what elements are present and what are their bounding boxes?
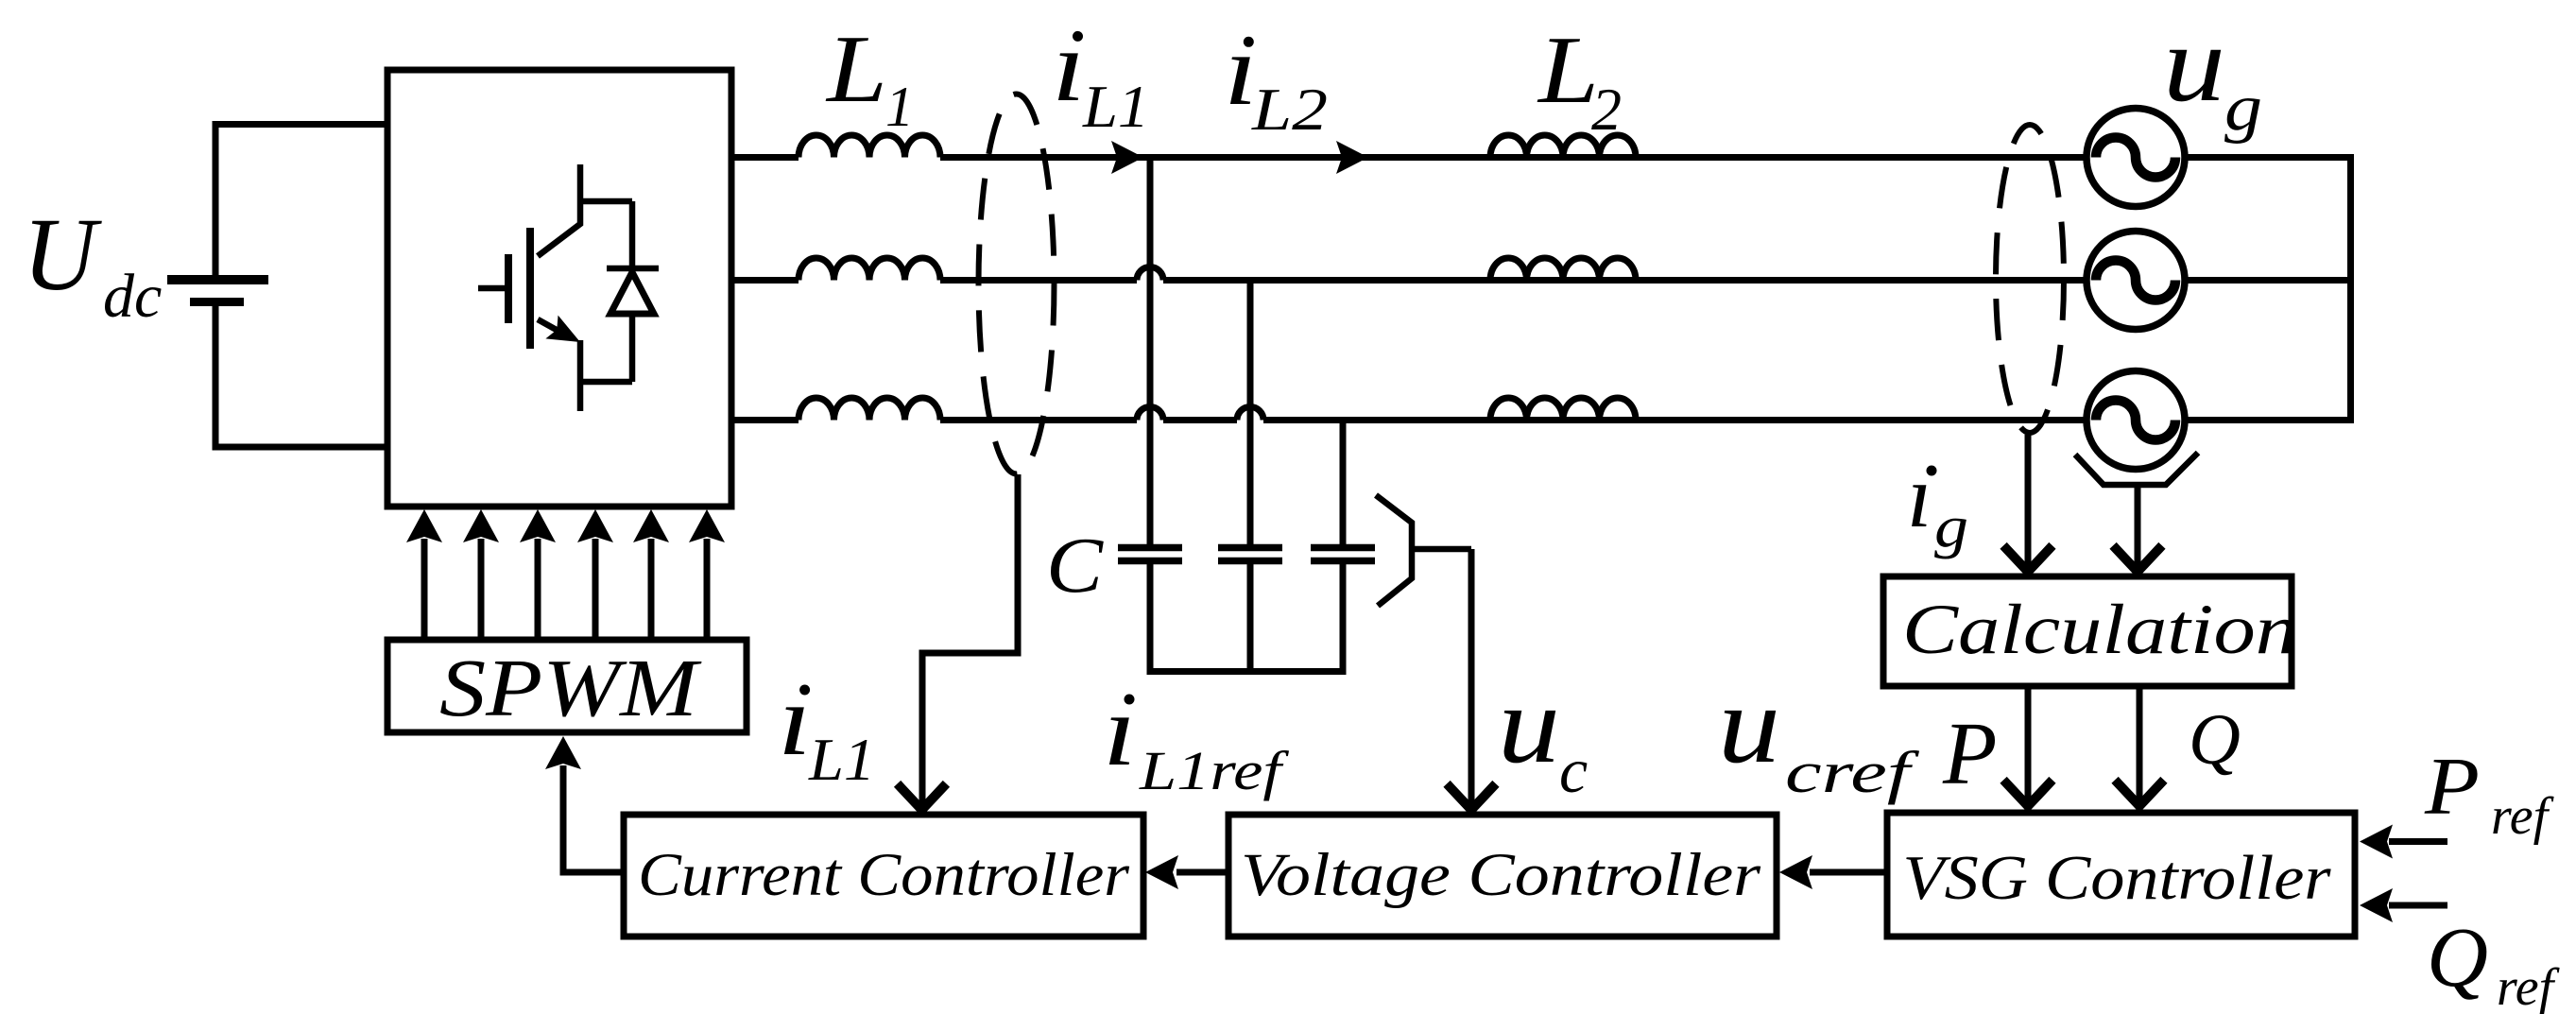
inductor L1 phase C xyxy=(799,398,940,421)
svg-text:L: L xyxy=(1537,17,1599,124)
iL1 arrow into current controller xyxy=(901,787,943,810)
svg-text:P: P xyxy=(2424,740,2480,832)
grid source C xyxy=(2087,371,2185,470)
svg-text:dc: dc xyxy=(103,262,162,331)
svg-text:U: U xyxy=(23,197,102,312)
capacitor common rail xyxy=(1147,668,1347,675)
arrow into SPWM xyxy=(545,736,581,769)
ig measurement wire xyxy=(2025,435,2032,568)
inductor L2 phase B xyxy=(1490,258,1636,281)
svg-text:VSG Controller: VSG Controller xyxy=(1903,843,2332,913)
transistor IGBT xyxy=(478,164,632,411)
voltage controller box xyxy=(1228,815,1777,937)
label ug xyxy=(2163,4,2262,145)
phase C wire xyxy=(731,417,2350,423)
phase B wire xyxy=(731,277,2350,284)
svg-text:Current Controller: Current Controller xyxy=(638,841,1130,909)
svg-text:L2: L2 xyxy=(1251,76,1328,143)
wire battery top to inverter xyxy=(213,121,388,128)
svg-text:L: L xyxy=(825,16,887,123)
label Pref xyxy=(2424,740,2555,846)
gate drive arrow 6 xyxy=(689,509,725,640)
uc measurement wire xyxy=(1468,549,1475,806)
svg-text:L1ref: L1ref xyxy=(1139,740,1290,801)
svg-text:ref: ref xyxy=(2491,787,2555,846)
wire battery bottom to inverter xyxy=(213,444,388,451)
P arrow into VSG controller xyxy=(2007,783,2050,806)
svg-text:P: P xyxy=(1942,705,1997,803)
label iL1 bottom xyxy=(778,664,875,793)
ug arrow into calculation xyxy=(2117,549,2159,572)
capacitor wire 3 xyxy=(1340,421,1347,545)
grid source A xyxy=(2087,109,2185,207)
hop of phase C over capacitor wire 1 xyxy=(1137,407,1163,421)
Q wire calculation to VSG xyxy=(2137,686,2143,802)
svg-text:ı: ı xyxy=(1103,675,1137,787)
svg-text:C: C xyxy=(1046,522,1104,610)
Q arrow into VSG controller xyxy=(2119,783,2161,806)
freewheeling diode xyxy=(607,201,659,382)
voltage probe bracket ug xyxy=(2075,453,2198,485)
label ucref xyxy=(1718,662,1920,805)
SPWM box xyxy=(387,640,747,732)
capacitor C1 xyxy=(1118,548,1182,672)
VSG controller box xyxy=(1887,813,2355,937)
svg-text:1: 1 xyxy=(885,76,914,138)
iL1 measurement wire xyxy=(922,474,1022,806)
svg-text:Q: Q xyxy=(2427,911,2488,1005)
dc source Udc battery xyxy=(167,125,268,448)
ig arrow into calculation xyxy=(2007,549,2050,572)
arrow iL1 on phase A xyxy=(1111,141,1143,174)
capacitor C3 xyxy=(1311,548,1375,672)
phase A wire xyxy=(731,154,2350,161)
svg-text:g: g xyxy=(1934,495,1968,559)
Pref input arrow xyxy=(2389,838,2447,845)
arrow into voltage controller xyxy=(1779,855,1812,889)
label L2 xyxy=(1537,17,1622,143)
svg-text:Q: Q xyxy=(2189,700,2241,780)
inductor L2 phase C xyxy=(1490,398,1636,421)
gate drive arrow 4 xyxy=(577,509,613,640)
wire voltage to current controller xyxy=(1176,869,1228,876)
label iL1ref xyxy=(1103,675,1289,801)
ug measurement wire xyxy=(2135,485,2141,568)
gate drive arrow 1 xyxy=(406,509,442,640)
inductor L2 phase A xyxy=(1490,135,1636,158)
svg-text:ı: ı xyxy=(778,664,812,777)
grid bus wire xyxy=(2347,154,2354,423)
arrow iL2 on phase A xyxy=(1336,141,1368,174)
svg-text:cref: cref xyxy=(1785,741,1920,805)
uc arrow into voltage controller xyxy=(1451,787,1493,810)
grid source B xyxy=(2087,232,2185,330)
label iL1 top xyxy=(1052,10,1149,140)
hop of phase B over capacitor wire 1 xyxy=(1137,267,1163,281)
current sensor ellipse 2 xyxy=(1996,125,2064,433)
svg-text:Voltage Controller: Voltage Controller xyxy=(1241,841,1761,909)
gate drive arrow 2 xyxy=(463,509,499,640)
inductor L1 phase A xyxy=(799,135,940,158)
label iL2 top xyxy=(1224,14,1328,143)
current sensor ellipse 1 xyxy=(979,95,1055,474)
label uc xyxy=(1498,662,1588,806)
svg-text:ı: ı xyxy=(1907,446,1932,546)
svg-text:g: g xyxy=(2224,72,2262,145)
gate drive arrow 3 xyxy=(520,509,556,640)
svg-text:u: u xyxy=(1718,662,1780,786)
hop of phase C over capacitor wire 2 xyxy=(1237,407,1263,421)
current controller box xyxy=(624,815,1143,937)
capacitor C2 xyxy=(1218,548,1282,672)
svg-text:ref: ref xyxy=(2497,958,2561,1014)
gate drive arrow 5 xyxy=(633,509,669,640)
wire VSG to voltage controller xyxy=(1810,869,1887,876)
calculation box xyxy=(1883,576,2292,686)
label Udc xyxy=(23,197,162,331)
svg-text:L1: L1 xyxy=(1082,73,1149,140)
arrow into current controller xyxy=(1145,855,1178,889)
svg-text:Calculation: Calculation xyxy=(1902,591,2297,669)
svg-text:u: u xyxy=(2163,4,2225,125)
svg-text:L1: L1 xyxy=(808,726,875,793)
capacitor wire 1 xyxy=(1147,158,1154,545)
svg-text:SPWM: SPWM xyxy=(439,642,702,733)
label ig xyxy=(1907,446,1968,559)
P wire calculation to VSG xyxy=(2025,686,2032,802)
wire current controller to SPWM xyxy=(563,765,624,872)
capacitor wire 2 xyxy=(1247,281,1254,545)
label Qref xyxy=(2427,911,2561,1014)
inverter box xyxy=(387,70,731,507)
label L1 xyxy=(825,16,914,138)
voltage probe bracket uc xyxy=(1376,495,1471,606)
inductor L1 phase B xyxy=(799,258,940,281)
svg-text:u: u xyxy=(1498,662,1560,786)
Qref input arrow xyxy=(2389,902,2447,909)
svg-text:c: c xyxy=(1559,734,1588,806)
svg-text:2: 2 xyxy=(1591,76,1622,143)
svg-text:ı: ı xyxy=(1052,10,1086,123)
